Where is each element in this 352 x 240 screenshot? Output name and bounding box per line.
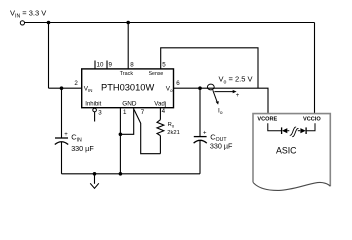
junction dot COUT branch xyxy=(198,86,202,90)
svg-text:4: 4 xyxy=(162,108,166,115)
wire VCCIO feed xyxy=(314,23,316,115)
pin 9 stub xyxy=(106,61,108,69)
dimension tick VCORE xyxy=(268,123,281,131)
wire bottom rail xyxy=(62,173,201,175)
break squiggle xyxy=(290,127,299,137)
wire output to VCORE xyxy=(258,88,268,114)
svg-text:330 µF: 330 µF xyxy=(71,144,94,153)
svg-text:Inhibit: Inhibit xyxy=(85,102,101,108)
diode right xyxy=(298,127,306,134)
svg-text:8: 8 xyxy=(130,62,134,69)
svg-text:2k21: 2k21 xyxy=(167,130,180,136)
capacitor CIN xyxy=(55,132,95,153)
svg-text:+: + xyxy=(203,130,207,136)
svg-text:330 µF: 330 µF xyxy=(210,141,233,150)
wire COUT branch lower xyxy=(199,141,201,174)
wire CIN branch upper xyxy=(61,88,63,138)
svg-text:ASIC: ASIC xyxy=(276,146,297,156)
pin 10 stub xyxy=(94,61,96,69)
svg-text:9: 9 xyxy=(109,62,113,69)
svg-text:5: 5 xyxy=(162,62,166,69)
wire VIN branch down xyxy=(48,23,50,89)
junction dot CIN branch xyxy=(60,86,64,90)
diode left xyxy=(282,127,290,134)
svg-text:Ro: Ro xyxy=(168,122,175,128)
junction dot top rail left xyxy=(47,21,51,25)
dimension tick VCCIO xyxy=(307,123,315,131)
arrow VO xyxy=(214,91,233,93)
svg-text:Sense: Sense xyxy=(149,71,164,77)
wire track pin 8 xyxy=(127,23,129,69)
svg-text:7: 7 xyxy=(141,109,145,116)
op-amp U1 PTH03010W module body xyxy=(82,69,174,108)
junction dot GND rail xyxy=(119,172,123,176)
svg-text:GND: GND xyxy=(122,101,137,108)
wire pin 7 to pin 1 xyxy=(120,108,133,135)
wire Rset return xyxy=(134,110,160,154)
wire COUT branch upper xyxy=(199,88,201,136)
svg-text:1: 1 xyxy=(123,109,127,116)
svg-text:Track: Track xyxy=(120,71,134,77)
wire sense pin 5 xyxy=(161,48,258,88)
node VIN terminal xyxy=(20,21,24,25)
svg-text:Vadj: Vadj xyxy=(154,101,166,108)
wire output pin 6 xyxy=(174,87,259,89)
ground xyxy=(90,172,99,188)
resistor RSET xyxy=(157,108,180,154)
svg-text:PTH03010W: PTH03010W xyxy=(101,82,154,92)
svg-text:10: 10 xyxy=(97,62,104,69)
svg-text:6: 6 xyxy=(176,80,180,87)
arrow Io xyxy=(213,90,217,102)
junction dot track xyxy=(126,21,130,25)
svg-text:+: + xyxy=(236,93,240,99)
inhibit pin 3 xyxy=(93,108,103,121)
svg-text:2: 2 xyxy=(74,80,78,87)
current probe Io loop xyxy=(207,84,214,90)
ASIC box xyxy=(253,114,330,191)
junction dot pin1/pin7 xyxy=(119,133,123,137)
svg-text:+: + xyxy=(64,132,68,138)
wire CIN branch lower xyxy=(61,142,63,174)
svg-text:VCCIO: VCCIO xyxy=(303,116,321,122)
svg-text:3: 3 xyxy=(98,110,102,117)
svg-text:VCORE: VCORE xyxy=(257,116,277,122)
wire top rail VIN xyxy=(25,22,315,24)
capacitor COUT xyxy=(194,130,233,150)
wire to pin 2 xyxy=(49,87,82,89)
wire GND pin 1 xyxy=(119,108,121,174)
